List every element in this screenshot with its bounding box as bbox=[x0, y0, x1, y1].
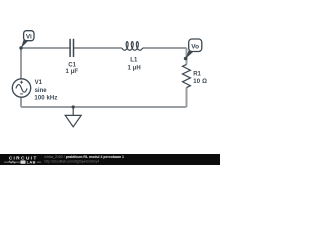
ground triangle bbox=[65, 115, 81, 126]
svg-text:LAB: LAB bbox=[27, 159, 36, 164]
CircuitLab logo resistor squiggle bbox=[9, 161, 16, 163]
svg-text:Vi: Vi bbox=[26, 34, 32, 41]
wire inductor to top-right corner bbox=[143, 47, 187, 49]
inductor L1 coil bbox=[122, 42, 143, 51]
ground stem bbox=[72, 107, 74, 115]
wire left vertical: corner down to source top bbox=[20, 48, 22, 79]
svg-text:V1: V1 bbox=[35, 80, 43, 86]
CircuitLab logo lightning box bbox=[21, 160, 26, 163]
svg-text:1 µF: 1 µF bbox=[66, 69, 79, 75]
svg-text:sine: sine bbox=[35, 88, 48, 94]
node Vi anchor dot bbox=[19, 46, 22, 49]
wire bottom rail bbox=[21, 106, 187, 108]
voltage source V1 circle bbox=[12, 79, 30, 97]
svg-text:10 Ω: 10 Ω bbox=[193, 79, 207, 85]
svg-text:R1: R1 bbox=[193, 72, 201, 78]
svg-text:100 kHz: 100 kHz bbox=[34, 95, 57, 101]
wire source bottom to bottom rail bbox=[20, 97, 22, 107]
node flag Vo box bbox=[189, 39, 202, 52]
watermark bar bbox=[0, 154, 220, 165]
capacitor C1 plates bbox=[70, 39, 73, 57]
node flag Vi box bbox=[24, 31, 34, 41]
node flag Vo tail bbox=[185, 49, 193, 59]
V1 plus sign bbox=[20, 81, 23, 84]
resistor R1 zigzag bbox=[183, 64, 191, 87]
wire resistor bottom to bottom rail bbox=[186, 88, 188, 107]
V1 minus sign bbox=[20, 93, 23, 95]
CircuitLab logo wire right bbox=[37, 161, 41, 163]
V1 sine wave bbox=[16, 85, 27, 93]
node Vo anchor dot bbox=[184, 57, 188, 61]
CircuitLab logo wire left bbox=[4, 161, 20, 163]
svg-text:L1: L1 bbox=[130, 58, 138, 64]
svg-text:C1: C1 bbox=[68, 63, 76, 69]
node flag Vi tail bbox=[21, 38, 28, 48]
wire right vertical: corner down to resistor bbox=[186, 48, 188, 64]
ground junction dot bbox=[72, 105, 75, 108]
svg-text:Vo: Vo bbox=[191, 44, 199, 51]
svg-text:http://circuitlab.com/c6g5qw42: http://circuitlab.com/c6g5qw42vs6vy4 bbox=[45, 159, 100, 163]
svg-text:1 µH: 1 µH bbox=[128, 65, 141, 71]
wire top-left corner to capacitor bbox=[21, 47, 70, 49]
wire capacitor to inductor bbox=[74, 47, 122, 49]
